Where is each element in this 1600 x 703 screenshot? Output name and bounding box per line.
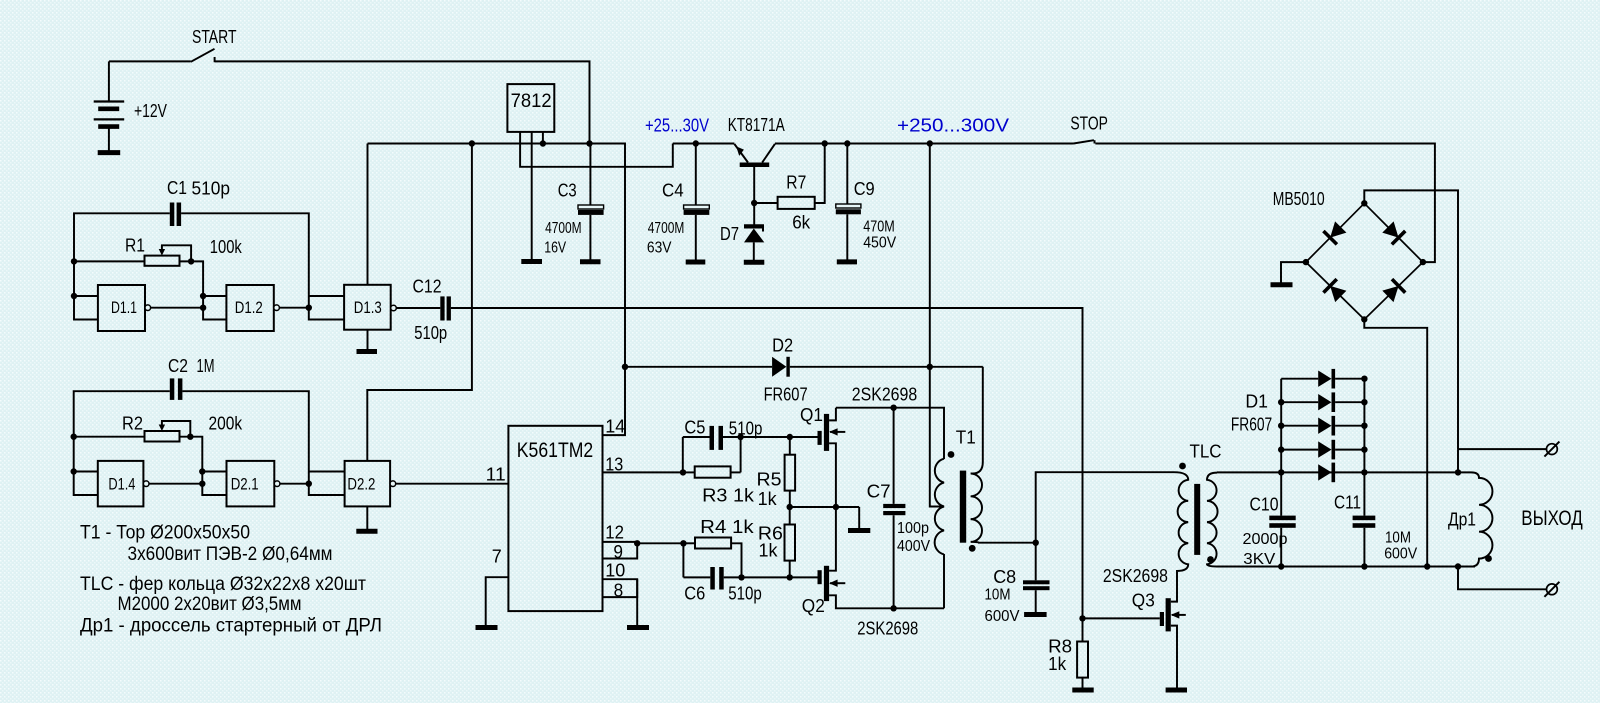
transformer TLC secondary winding (1207, 473, 1218, 567)
node: R6 bottom (787, 574, 793, 580)
wire: 7812 output pin (542, 132, 544, 144)
svg-text:C2: C2 (168, 356, 188, 376)
transistor Q2 2SK2698 (818, 507, 945, 608)
svg-text:D2: D2 (772, 336, 793, 356)
wire: D1.4 out to D2.1 in (149, 483, 202, 485)
svg-text:12: 12 (605, 523, 624, 543)
resistor R4 (683, 542, 695, 544)
wire: R7 right lead up to rail (815, 144, 825, 204)
svg-text:11: 11 (486, 465, 506, 485)
wire: C12 long output run to Q3 gate column (451, 308, 1083, 618)
pin 13 wire (603, 471, 684, 473)
svg-text:D1.2: D1.2 (235, 298, 263, 317)
wire: bridge left vertex to ground (1281, 262, 1306, 282)
svg-text:R4 1k: R4 1k (700, 517, 755, 537)
diode stack left rail (1280, 379, 1282, 516)
wire: D2.2 top input branch (309, 471, 345, 473)
capacitor C2 (170, 378, 175, 400)
svg-text:C11: C11 (1334, 493, 1361, 513)
diode D1.e (on secondary row) (1318, 463, 1335, 483)
node: Q3 gate / R8 junction (1079, 615, 1085, 621)
wire: top output lead (1458, 448, 1546, 450)
svg-text:Q3: Q3 (1132, 591, 1155, 611)
capacitor C5 (683, 436, 710, 438)
bridge diode (top-left) (1323, 220, 1347, 244)
svg-text:D1: D1 (1245, 392, 1268, 412)
wire: T1 primary bottom lead (943, 554, 945, 608)
svg-text:16V: 16V (544, 240, 567, 257)
svg-text:MB5010: MB5010 (1273, 189, 1325, 209)
node: D2 cathode junction (927, 364, 933, 370)
svg-text:D1.4: D1.4 (108, 475, 135, 494)
bridge frame (1306, 203, 1423, 319)
svg-text:100p: 100p (897, 520, 929, 537)
transformer TLC primary winding (1174, 472, 1188, 575)
node: Dr1 top (1455, 469, 1461, 475)
resistor R3 (683, 471, 695, 473)
wire: R7 left lead (754, 202, 777, 204)
ground (bridge) (1271, 282, 1293, 287)
wire: C1 right down to D1.3 inputs (181, 213, 344, 319)
Dr1 polarity dot (1485, 555, 1492, 562)
wire: R1 right lead to D1.2 inputs (180, 261, 227, 319)
svg-text:C6: C6 (684, 584, 705, 604)
resistor R2 (trimmer) (145, 431, 180, 442)
node: osc2 junction dots (71, 434, 77, 440)
svg-text:1k: 1k (1048, 654, 1067, 674)
IC D1/D2 K561TM2 (508, 426, 602, 611)
node: C6/R4 right (738, 574, 744, 580)
svg-text:510p: 510p (728, 584, 762, 604)
svg-text:63V: 63V (647, 240, 672, 257)
ground (pin 7) (476, 625, 498, 630)
svg-text:510p: 510p (414, 323, 447, 343)
svg-text:2SK2698: 2SK2698 (1103, 566, 1168, 586)
svg-text:4700M: 4700M (545, 220, 582, 237)
svg-text:3KV: 3KV (1243, 551, 1275, 568)
diode D1.c (1281, 416, 1364, 436)
ground (D2.2) (356, 529, 377, 534)
wire: bridge bottom vertex to HV return rail (1364, 319, 1427, 566)
ground (C3) (580, 259, 601, 264)
ground (7812) (521, 259, 542, 264)
D1.4 output bubble (143, 481, 149, 487)
wire: rail STOP to bridge (1095, 144, 1435, 263)
R1 wiper arm (162, 245, 191, 261)
wire: bottom output lead (1458, 567, 1546, 590)
wire: R3 right up to gate wire (740, 437, 742, 472)
gate D1.1 (98, 285, 145, 331)
svg-text:C7: C7 (867, 482, 891, 502)
node: stack junctions right (1361, 376, 1367, 382)
wire: bridge top vertex to output (1364, 190, 1458, 449)
wire: D1.4 top input (74, 471, 98, 473)
D2.2 output bubble (390, 481, 396, 487)
TLC polarity dot (primary) (1179, 463, 1186, 470)
svg-text:D1.3: D1.3 (354, 298, 382, 317)
svg-text:C4: C4 (662, 181, 684, 201)
svg-text:1M: 1M (197, 356, 215, 376)
node: C7 top / bottom (890, 405, 896, 411)
svg-text:600V: 600V (1384, 546, 1417, 563)
svg-text:7812: 7812 (511, 91, 552, 112)
resistor R8 (1082, 618, 1084, 641)
svg-text:6k: 6k (792, 213, 811, 233)
svg-text:10M: 10M (1385, 530, 1411, 547)
transistor Q1 2SK2698 (818, 408, 846, 507)
resistor R6 (789, 507, 791, 525)
pins 10/8 tie to ground (603, 579, 638, 597)
resistor R7 (778, 197, 815, 209)
wire: R1 left lead (74, 260, 145, 262)
node: R4 left (680, 540, 686, 546)
capacitor C10 (1269, 516, 1295, 521)
node: R7/D7 (751, 200, 757, 206)
regulator U2 7812 (507, 84, 554, 132)
inductor Dr1 (1458, 472, 1492, 566)
wire: D2.2 out to IC pin 11 (396, 483, 509, 485)
svg-text:START: START (192, 26, 237, 47)
wire: D2.1 top input (202, 471, 226, 473)
ground (C8) (1024, 612, 1047, 617)
svg-text:510p: 510p (729, 419, 763, 439)
node: pin13 junction (680, 469, 686, 475)
svg-text:D2.2: D2.2 (347, 475, 375, 494)
TLC polarity dot (secondary) (1207, 556, 1214, 563)
resistor R1 (trimmer) (145, 256, 180, 266)
pin 7 wire to ground (486, 577, 509, 625)
battery GB1 +12V (94, 102, 125, 151)
svg-text:510p: 510p (192, 179, 231, 199)
svg-text:1k: 1k (759, 541, 779, 561)
svg-text:C8: C8 (993, 567, 1016, 587)
svg-text:Q1: Q1 (800, 405, 823, 425)
capacitor C9 (electrolytic) (846, 144, 848, 205)
wire: D1.3 VDD from +12V rail (367, 144, 369, 285)
wire: C2 left to left rail (74, 391, 170, 495)
wire: D1.2 top input (203, 295, 226, 297)
wire: D2.2 VDD from +12V rail (367, 144, 472, 461)
svg-text:FR607: FR607 (764, 385, 808, 405)
capacitor C11 (1353, 516, 1376, 521)
gate D2.2 (345, 461, 391, 507)
svg-text:1k: 1k (758, 489, 778, 509)
svg-text:М2000 2х20вит Ø3,5мм: М2000 2х20вит Ø3,5мм (118, 594, 302, 615)
wire: C5 right to Q1 gate (723, 436, 818, 438)
wire: D1.3 out to C12 (396, 307, 440, 309)
resistor R5 (789, 437, 791, 455)
wire: R4 left node down to C6 (682, 543, 684, 577)
svg-text:3х600вит ПЭВ-2 Ø0,64мм: 3х600вит ПЭВ-2 Ø0,64мм (128, 544, 333, 565)
capacitor C8 (1035, 543, 1037, 581)
ground (C9) (837, 259, 857, 264)
node: pins12/9 junction (634, 540, 640, 546)
svg-text:Q2: Q2 (802, 596, 825, 616)
ground (R8) (1072, 688, 1093, 693)
svg-text:R5: R5 (757, 470, 782, 490)
ground (D1.3) (357, 349, 378, 354)
wire: D1.3 gnd stub (367, 330, 369, 350)
node: C4 top (693, 140, 699, 146)
ground (sources) (848, 528, 870, 533)
capacitor C7 (893, 408, 895, 504)
gate D1.4 (98, 461, 144, 507)
wire: START to +12V rail drop (215, 61, 590, 143)
bridge diode (top-right) (1381, 220, 1405, 244)
transformer T1 secondary winding (971, 367, 1036, 543)
wire: R2 right lead to D2.1 inputs (180, 437, 227, 495)
wire: Q1 drain to T1 top (836, 408, 944, 459)
node: D2 anode at +12V column (622, 364, 628, 370)
wire: +25V rail left segment (673, 143, 735, 145)
svg-text:470M: 470M (863, 219, 895, 236)
D1.1 output bubble (145, 305, 151, 311)
wire: C6 right to Q2 gate (724, 576, 818, 578)
wire: T1 secondary bottom node up and to TLC (1036, 472, 1174, 543)
ground (D7) (744, 260, 765, 265)
ground (battery) (98, 150, 121, 155)
svg-text:4700M: 4700M (648, 220, 685, 237)
transistor Q3 2SK2698 (1160, 575, 1186, 688)
svg-text:200k: 200k (209, 414, 243, 434)
svg-text:R2: R2 (122, 414, 143, 434)
node: R5/R6 junction (787, 504, 793, 510)
svg-text:C1: C1 (167, 178, 187, 198)
gate D2.1 (227, 461, 275, 507)
ground (pins 10/8) (627, 625, 649, 630)
wire: TLC secondary top row (1217, 471, 1458, 473)
wire: pin13 node up to C5 (682, 437, 684, 472)
D1.2 output bubble (274, 305, 280, 311)
D2.1 output bubble (274, 481, 280, 487)
capacitor C6 (683, 576, 710, 578)
node: bridge vertices (1361, 200, 1367, 206)
switch START (blade and contact) (191, 49, 215, 62)
wire: D2.1 out to vertical (280, 483, 309, 485)
svg-text:R1: R1 (125, 236, 145, 256)
svg-text:14: 14 (605, 417, 625, 437)
terminal (top) (1547, 444, 1558, 455)
terminal (bottom) (1547, 584, 1558, 595)
svg-text:600V: 600V (985, 608, 1020, 625)
wire: +12V rail (368, 144, 626, 436)
svg-text:FR607: FR607 (1231, 415, 1272, 435)
svg-text:ВЫХОД: ВЫХОД (1521, 507, 1582, 530)
svg-text:D1.1: D1.1 (111, 298, 137, 317)
wire: 7812 input pin to +25V jog (520, 132, 673, 167)
switch STOP (1074, 140, 1094, 143)
svg-text:R7: R7 (786, 173, 806, 193)
wire: mid node ground stub (858, 507, 860, 529)
gate D1.2 (226, 285, 273, 331)
T1 core (960, 471, 966, 543)
diode D1.a (1281, 369, 1364, 389)
T1 polarity dot (secondary) (969, 545, 976, 552)
svg-text:10: 10 (605, 561, 625, 581)
ground (Q3 source) (1166, 688, 1187, 693)
T1 polarity dot (primary) (948, 451, 955, 458)
wire: C1 left to left rail (74, 213, 170, 319)
svg-text:400V: 400V (897, 538, 930, 555)
node: Q1/Q2 sources at mid rail (833, 504, 839, 510)
svg-text:C5: C5 (684, 418, 705, 438)
svg-text:R3 1k: R3 1k (702, 486, 755, 506)
zener D7 (744, 225, 764, 261)
svg-text:TLC - фер кольца Ø32х22х8 х20ш: TLC - фер кольца Ø32х22х8 х20шт (80, 574, 366, 595)
node: C8 junction (1033, 540, 1039, 546)
svg-text:TLC: TLC (1190, 442, 1222, 462)
node: R5 top (787, 434, 793, 440)
transformer T1 primary winding (935, 459, 944, 555)
svg-text:C12: C12 (413, 277, 442, 297)
wire: D1.3 inputs vertical branch (309, 295, 344, 297)
wire: pins 12/9 to R4 node (637, 542, 683, 544)
svg-text:+12V: +12V (134, 101, 167, 121)
wire: C2 right down to D2.2 inputs (182, 391, 344, 495)
svg-text:2SK2698: 2SK2698 (857, 619, 918, 639)
R2 wiper arm (162, 421, 190, 437)
svg-text:C3: C3 (558, 181, 577, 201)
svg-text:KT8171A: KT8171A (728, 115, 785, 135)
capacitor C12 (440, 296, 444, 320)
svg-text:Др1 - дроссель стартерный от Д: Др1 - дроссель стартерный от ДРЛ (80, 615, 382, 636)
svg-text:C10: C10 (1250, 495, 1279, 515)
diode stack right rail (1363, 379, 1365, 516)
svg-text:STOP: STOP (1070, 113, 1108, 134)
wire: TLC secondary bottom rail (1217, 566, 1475, 568)
gate D1.3 (344, 285, 391, 330)
wire: +250V down to T1 centre tap (930, 144, 944, 507)
node: rail dots (469, 140, 475, 146)
wire: battery positive to START switch (109, 60, 191, 62)
svg-text:2SK2698: 2SK2698 (852, 385, 917, 405)
wire: R2 left lead (74, 436, 145, 438)
pins 12/9 tie (603, 542, 638, 559)
svg-text:+25...30V: +25...30V (645, 116, 709, 136)
wire: D1.1 top input (74, 295, 98, 297)
svg-text:7: 7 (492, 547, 502, 567)
capacitor C4 (electrolytic) (695, 144, 697, 206)
svg-text:C9: C9 (854, 179, 875, 199)
diode D1.d (1281, 440, 1364, 460)
node: rail dots (R7, C9, T1 feed) (822, 140, 828, 146)
bridge diode (bottom-right) (1381, 279, 1405, 303)
bridge diode (bottom-left) (1323, 279, 1347, 303)
svg-text:T1: T1 (956, 428, 976, 448)
wire: gate node to Q3 (1083, 617, 1160, 619)
capacitor C1 (170, 203, 175, 227)
wire: D1.1 out to D1.2 in (151, 307, 204, 309)
node: stack junctions left (1278, 399, 1284, 405)
svg-text:450V: 450V (863, 235, 897, 252)
svg-text:100k: 100k (210, 237, 243, 257)
wire: 7812 gnd pin down (531, 132, 533, 260)
svg-text:K561TM2: K561TM2 (517, 439, 593, 462)
wire: +250V rail from collector to STOP (775, 143, 1074, 145)
D1.3 output bubble (391, 305, 397, 311)
wire: D2.2 gnd stub (366, 506, 368, 529)
wire: battery stem (108, 61, 110, 101)
TLC core (1194, 484, 1200, 555)
wire: D1.2 out to vertical (279, 307, 308, 309)
svg-text:T1 - Тор Ø200х50х50: T1 - Тор Ø200х50х50 (80, 523, 250, 544)
wire: top node down to row (1457, 449, 1459, 472)
wire: T1 secondary top to D2 node (930, 366, 983, 368)
capacitor C3 (electrolytic) (589, 144, 591, 206)
svg-text:D2.1: D2.1 (231, 475, 259, 494)
node: osc1 junction dots (71, 258, 77, 264)
svg-text:D7: D7 (720, 224, 739, 244)
node: C5/R3 right (737, 434, 743, 440)
wire: source midpoint rail (790, 506, 860, 508)
diode D1.b (1281, 392, 1364, 412)
svg-text:+250...300V: +250...300V (897, 116, 1009, 136)
ground (C4) (686, 260, 706, 265)
transistor VT1 KT8171A (734, 144, 775, 225)
svg-text:10M: 10M (985, 587, 1011, 604)
svg-text:Др1: Др1 (1448, 510, 1476, 530)
node: bottom rail junctions (1278, 563, 1284, 569)
